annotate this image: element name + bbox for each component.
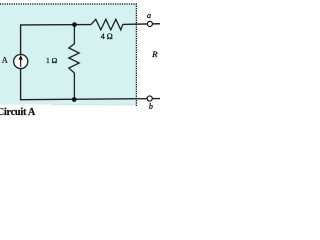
svg-text:A: A bbox=[2, 55, 8, 64]
wire: left branch below current source to bottom corner bbox=[20, 68, 22, 99]
junction node top (1-ohm to top rail) bbox=[72, 22, 77, 27]
wire: from 4-ohm resistor to terminal a and right edge bbox=[123, 23, 160, 26]
circuit A box top dashed border bbox=[0, 3, 137, 5]
svg-text:4 Ω: 4 Ω bbox=[101, 32, 113, 41]
svg-text:R: R bbox=[151, 49, 158, 59]
resistor 1-ohm (vertical zigzag) bbox=[69, 25, 79, 100]
resistor 4-ohm (horizontal zigzag) bbox=[91, 19, 123, 30]
wire: top rail from left corner to 4-ohm resistor bbox=[21, 25, 91, 55]
terminal b (open circle) bbox=[147, 96, 152, 101]
junction node bottom (1-ohm to bottom rail) bbox=[72, 97, 77, 102]
terminal a (open circle) bbox=[147, 21, 152, 26]
svg-text:1 Ω: 1 Ω bbox=[46, 56, 58, 65]
circuit A box bottom dashed border bbox=[52, 104, 136, 106]
circuit A box right dashed border bbox=[135, 4, 137, 108]
svg-text:b: b bbox=[149, 102, 153, 111]
svg-text:a: a bbox=[147, 10, 151, 20]
current source I (circle with up arrow) bbox=[14, 54, 28, 68]
svg-text:Circuit A: Circuit A bbox=[0, 107, 36, 118]
wire: bottom rail to right edge bbox=[20, 99, 160, 100]
circuit A dashed box fill bbox=[0, 4, 137, 105]
